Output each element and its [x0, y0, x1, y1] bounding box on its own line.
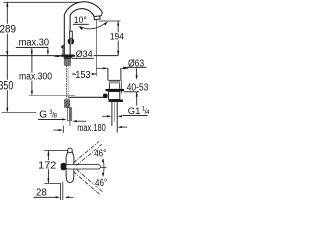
- faucet riser tube: [64, 2, 102, 55]
- plan view body: [66, 157, 74, 183]
- waste basin flange: [105, 89, 124, 91]
- node 350 dimension: [6, 56, 8, 112]
- faucet pull rod knob: [61, 46, 63, 49]
- svg-text:153: 153: [75, 70, 91, 81]
- wire max.300 reference line: [29, 95, 75, 97]
- node G3/8 arrows: [62, 118, 67, 120]
- label 40-53: [120, 81, 122, 94]
- faucet base flange: [61, 55, 75, 58]
- svg-text:46°: 46°: [94, 149, 106, 160]
- svg-text:max.300: max.300: [19, 71, 52, 82]
- faucet hose fitting G3/8: [64, 99, 70, 107]
- node 153 dimension: [72, 73, 97, 75]
- node 194 dimension: [99, 20, 121, 22]
- node diameter 63 arrows: [97, 67, 105, 69]
- waste bottom nut: [109, 100, 123, 103]
- wire lever axis tick: [101, 167, 107, 169]
- faucet threaded shank: [64, 58, 71, 66]
- node G1 1/4 arrows: [102, 115, 108, 117]
- plan view spout neck: [66, 152, 74, 157]
- waste upper cylinder: [107, 68, 109, 81]
- faucet hose pin: [67, 108, 71, 121]
- node 40-53 upper leader arrow: [136, 68, 138, 75]
- wire stream centerline: [96, 20, 98, 76]
- svg-text:28: 28: [36, 186, 47, 198]
- node 46 deg upper dash-dot: [73, 142, 99, 163]
- node 10 deg swivel arc: [81, 22, 107, 29]
- svg-text:10°: 10°: [74, 15, 87, 25]
- faucet supply hoses: [65, 66, 67, 100]
- wire deck line: [0, 55, 118, 57]
- svg-text:max.180: max.180: [77, 123, 106, 134]
- plan view aerator dome: [68, 148, 73, 153]
- waste body: [109, 92, 120, 100]
- svg-text:289: 289: [0, 23, 16, 35]
- svg-text:46°: 46°: [95, 178, 107, 189]
- waste neck: [108, 84, 110, 89]
- wire 350 reference line: [2, 112, 37, 114]
- waste plug head: [109, 80, 120, 83]
- plan view pivot: [61, 163, 67, 170]
- node 172 dimension: [44, 150, 68, 152]
- node 28 dimension: [59, 183, 61, 200]
- waste rod ball joint: [68, 96, 103, 98]
- node 40-53 leader arrow: [136, 92, 138, 105]
- node diameter 34 arrows: [54, 55, 58, 57]
- node swing arc: [102, 159, 105, 176]
- node max.300 dimension: [31, 48, 33, 94]
- faucet aerator tip: [94, 16, 100, 20]
- faucet body lower left edge: [63, 45, 64, 55]
- waste tailpiece: [111, 102, 113, 126]
- svg-text:172: 172: [38, 159, 56, 171]
- node 289 dimension line: [6, 2, 8, 55]
- svg-text:350: 350: [0, 80, 13, 92]
- plan view lever bar: [66, 165, 101, 169]
- faucet lever shaft: [70, 31, 73, 38]
- node max.30 arrow to deck: [31, 51, 33, 56]
- faucet knob: [68, 38, 75, 45]
- svg-text:194: 194: [110, 31, 124, 42]
- wire top extension line 289: [4, 1, 80, 3]
- node 46 deg lower dash-dot: [73, 172, 99, 195]
